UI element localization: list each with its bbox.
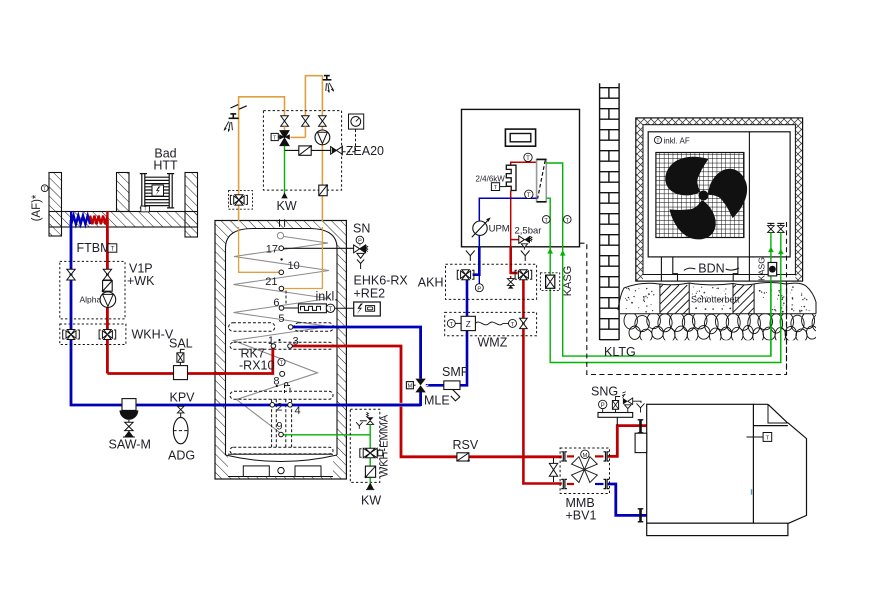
- wire blue return main through tank: [213, 404, 421, 407]
- svg-text:ADG: ADG: [168, 448, 195, 462]
- svg-text:Schotterbett: Schotterbett: [691, 295, 740, 305]
- heat pump indoor unit cabinet: [462, 109, 580, 246]
- svg-text:HTT: HTT: [153, 159, 178, 173]
- drain funnel under unit left: [466, 251, 475, 256]
- node port 3: [288, 344, 293, 349]
- valve WKH-V red: [99, 330, 116, 340]
- svg-text:WKH-EMMA: WKH-EMMA: [379, 414, 391, 477]
- wire red horizontal to tank port 1: [107, 346, 272, 374]
- svg-text:T: T: [511, 322, 515, 328]
- motor valve MLE: [406, 379, 449, 408]
- valve WMZ red: [520, 318, 528, 323]
- wire green from tank port 9 to WKH-EMMA: [283, 434, 370, 436]
- node port 2: [270, 403, 275, 408]
- safety valve 2,5bar: [511, 226, 542, 250]
- node (AF)* sensor: [31, 185, 48, 222]
- SAW-M component: [109, 399, 151, 452]
- svg-text:T: T: [526, 155, 530, 162]
- sensor T green B: [564, 216, 572, 224]
- node port 8: [280, 371, 285, 376]
- svg-text:FTBM: FTBM: [77, 241, 111, 255]
- heating element EHK6-RX box: [354, 274, 409, 316]
- wall right column: [185, 173, 198, 238]
- wire orange in-tank branch B to port 21: [284, 227, 322, 289]
- pressure gauge: [343, 114, 364, 152]
- wall middle column: [117, 173, 130, 212]
- svg-text:2,5bar: 2,5bar: [515, 226, 542, 237]
- meter box Z: [461, 316, 475, 330]
- wire green KW up into mixer: [284, 146, 286, 194]
- MMB unions: [561, 452, 609, 489]
- boiler sensor box-T: [747, 436, 764, 438]
- heater 2/4/6kW comb: [506, 165, 516, 190]
- wire floor-coil red zigzag: [90, 211, 107, 224]
- cabinet divider: [748, 132, 750, 257]
- svg-text:P: P: [477, 286, 481, 292]
- red stubs inside MMB: [567, 455, 574, 457]
- svg-text:KLTG: KLTG: [604, 345, 636, 359]
- wire blue AKH valve down to WMZ: [466, 280, 469, 316]
- svg-text:SAL: SAL: [169, 336, 193, 350]
- tank top stub: [279, 219, 281, 227]
- SAL air separator: [169, 336, 193, 379]
- svg-text:T: T: [43, 187, 46, 193]
- svg-text:-RX10: -RX10: [239, 359, 274, 373]
- svg-text:T: T: [329, 307, 333, 313]
- wire red from tank port 3 to RSV corner: [291, 346, 401, 403]
- tank storage (hatched insulation): [215, 221, 346, 480]
- tap (draw-off) left: [229, 114, 239, 118]
- valve ZEA box top 1: [281, 116, 289, 121]
- node port 1: [271, 344, 276, 349]
- svg-text:+WK: +WK: [127, 274, 155, 288]
- wire red flow from wall down to SAL level: [106, 220, 109, 374]
- KPV valve + ADG expansion vessel: [168, 391, 195, 463]
- svg-text:BDN: BDN: [698, 262, 724, 276]
- svg-text:2: 2: [277, 402, 283, 414]
- bypass valve BV1: [549, 458, 557, 482]
- KW supply arrow (ZEA): [281, 192, 287, 198]
- wire red RSV run continuing below blue crossing: [401, 407, 562, 457]
- svg-text:4: 4: [295, 405, 301, 417]
- wire orange riser 2' + top run to tap: [305, 76, 322, 116]
- pump Alpha: [100, 292, 116, 308]
- mixer 4-way MMB: [572, 457, 598, 483]
- pump ZEA circulation: [315, 130, 330, 145]
- valve AKH red: [515, 270, 532, 280]
- small box on boiler left: [635, 433, 647, 452]
- svg-text:ZEA20: ZEA20: [346, 144, 384, 158]
- wire blue HX to UPM: [479, 198, 536, 247]
- wire green line A riser redrawn: [780, 232, 782, 362]
- KASG filter (left): [540, 266, 574, 297]
- wire red heater down to safety tee: [510, 191, 512, 247]
- svg-text:RSV: RSV: [453, 438, 479, 452]
- check valve (gravity brake) above pump: [102, 281, 113, 293]
- wire orange riser B (tap down through box to tank): [321, 80, 323, 221]
- display: [505, 129, 535, 146]
- svg-text:3: 3: [293, 336, 299, 348]
- node port 6: [279, 306, 284, 311]
- tank baffle middle: [230, 391, 333, 399]
- unit pedestal / feet: [661, 257, 749, 281]
- node port 17: [279, 246, 284, 251]
- wire blue MMB to boiler return: [608, 484, 647, 515]
- wire green HX to line A: [546, 198, 781, 362]
- svg-text:KASG: KASG: [562, 266, 574, 297]
- svg-text:KPV: KPV: [170, 391, 196, 405]
- radiator HTT: [140, 173, 174, 209]
- thermostatic mixer (black): [271, 126, 305, 145]
- svg-text:M: M: [582, 453, 587, 459]
- svg-text:P: P: [358, 239, 362, 245]
- svg-text:5: 5: [278, 313, 284, 325]
- sensor T WMZ right: [509, 319, 517, 327]
- tank internal coil: [234, 236, 330, 434]
- fan blades: [350, 157, 827, 536]
- KASG valves in unit: [767, 223, 784, 232]
- sensor RK7 circle-T: [278, 358, 285, 365]
- outdoor unit frame (cross-hatched): [636, 118, 803, 281]
- svg-text:SNG: SNG: [591, 384, 618, 398]
- fan grille: [656, 153, 744, 238]
- solenoid valve ZEA20: [331, 144, 384, 158]
- svg-text:EHK6-RX: EHK6-RX: [354, 274, 409, 288]
- safety group SNG: [591, 384, 645, 425]
- filter SMF: [442, 365, 469, 401]
- wire floor-coil blue zigzag: [71, 211, 90, 224]
- WKH-V dashed box: [60, 324, 126, 345]
- valve ZEA box top 3: [319, 116, 327, 121]
- wall floor slab: [49, 212, 198, 228]
- svg-text:SAW-M: SAW-M: [109, 438, 151, 452]
- node port 4: [288, 403, 293, 408]
- KW supply arrow (WKH-EMMA): [367, 482, 374, 489]
- WKH-EMMA dashed box: [350, 409, 380, 482]
- svg-text:AKH: AKH: [418, 275, 444, 289]
- node port 5: [288, 325, 293, 330]
- circulation shut-off valve on riser A: [229, 191, 253, 210]
- blue tick on boiler divider: [751, 489, 753, 495]
- pump UPM: [472, 217, 510, 237]
- svg-text:KW: KW: [361, 494, 381, 508]
- KLTG boundary dashed: [580, 222, 787, 375]
- sensor T on red flow: [524, 153, 532, 161]
- radiator heating element box: [152, 185, 164, 196]
- svg-text:KASG: KASG: [757, 257, 767, 281]
- boiler body: [647, 404, 807, 535]
- svg-text:21: 21: [265, 276, 277, 288]
- wire red unit to AKH valve: [511, 247, 518, 273]
- wire green down WKH-EMMA: [369, 435, 371, 483]
- svg-text:+BV1: +BV1: [566, 509, 597, 523]
- ZEA20 dashed box: [263, 111, 341, 191]
- water meter WKH-EMMA: [365, 466, 375, 477]
- tank baffle bottom: [230, 447, 333, 454]
- wire orange in-tank branch A to port: [239, 227, 279, 272]
- drain funnel under unit right: [521, 251, 530, 256]
- gravel blocks: [620, 284, 816, 314]
- svg-text:UPM: UPM: [489, 224, 510, 235]
- gravel stones: [624, 312, 828, 344]
- svg-text:17: 17: [266, 243, 278, 255]
- tank baffle at port 5 (left): [229, 323, 275, 332]
- svg-text:Z: Z: [466, 320, 471, 329]
- wire green HX to line B: [546, 163, 771, 356]
- sensor box-T FTBM: [108, 244, 117, 252]
- valve ZEA box top 2: [302, 116, 310, 121]
- wire blue from tank port 5 to MLE: [292, 327, 421, 379]
- wire blue unit to AKH valve: [473, 247, 480, 275]
- svg-text:inkl. AF: inkl. AF: [664, 136, 690, 145]
- svg-text:M: M: [408, 383, 413, 389]
- node port 10: [280, 258, 282, 260]
- WMZ dashed box: [445, 312, 537, 335]
- svg-text:+RE2: +RE2: [354, 287, 386, 301]
- heating element RK7 inkl (comb + sensor): [284, 289, 354, 313]
- heat exchanger (condenser): [537, 159, 547, 201]
- gauge P under AKH blue: [478, 276, 480, 284]
- valve on red (V1P): [103, 269, 111, 280]
- wire red MMB to boiler flow: [608, 426, 647, 457]
- wire red electric heater to HX: [511, 162, 537, 165]
- gravel bed top (wavy): [618, 283, 816, 314]
- KASG coupling redrawn: [768, 263, 776, 276]
- wavy capillary: [475, 322, 508, 325]
- sensor T WMZ left: [447, 319, 455, 327]
- pipe-break on riser A: [231, 105, 239, 108]
- AKH dashed box: [446, 264, 537, 299]
- motor mixing valve WKH-EMMA: [360, 448, 383, 458]
- svg-text:2/4/6kW: 2/4/6kW: [476, 174, 506, 183]
- tap (draw-off) right: [322, 76, 331, 80]
- node port 9: [279, 432, 284, 437]
- svg-text:T: T: [450, 322, 454, 328]
- brick wall (house): [600, 83, 620, 340]
- safety valve WKH-EMMA: [356, 412, 374, 434]
- wire blue WMZ down to SMF/MLE: [426, 331, 467, 386]
- green flow arrows at unit: [768, 247, 774, 253]
- wall left column: [49, 173, 198, 238]
- svg-text:Alpha: Alpha: [80, 295, 102, 305]
- svg-text:(AF)*: (AF)*: [31, 194, 43, 221]
- label inkl. AF: [654, 136, 661, 143]
- wire black cold branch with check valve to riser B: [285, 149, 331, 151]
- tank baffle at port 5 (right): [294, 323, 333, 332]
- svg-text:T: T: [766, 436, 770, 442]
- flange blue: [639, 509, 642, 522]
- svg-text:MLE: MLE: [424, 394, 450, 408]
- svg-text:inkl.: inkl.: [316, 289, 338, 303]
- wire red AKH down through WMZ to MMB: [523, 280, 561, 484]
- tank baffle at ports 1/3: [230, 342, 333, 349]
- valve on blue (V1P): [67, 269, 75, 280]
- safety group SN: [353, 221, 370, 269]
- svg-text:6: 6: [273, 297, 279, 309]
- svg-text:P: P: [601, 402, 605, 409]
- radiator thermostat box-T: [141, 206, 150, 212]
- node port 21: [279, 286, 284, 291]
- tank internal dashed pipes: [272, 291, 292, 449]
- svg-text:T: T: [273, 135, 276, 141]
- wire red to port 1 through tank: [213, 346, 273, 374]
- svg-text:T: T: [144, 207, 147, 213]
- svg-text:1: 1: [268, 335, 274, 347]
- wire black port 17 to SN valve: [283, 247, 354, 249]
- svg-text:SN: SN: [353, 221, 370, 235]
- svg-text:KW: KW: [277, 199, 297, 213]
- sensor T on blue return: [525, 190, 533, 198]
- flange red: [639, 420, 642, 433]
- svg-text:SMF: SMF: [442, 365, 469, 379]
- svg-text:10: 10: [288, 260, 300, 272]
- water meter in ZEA box: [319, 185, 327, 196]
- outdoor unit cabinet: [648, 132, 790, 257]
- MMB dashed box: [560, 448, 609, 494]
- valve WKH-V blue: [63, 330, 80, 340]
- wire blue return main (wall down, across bottom, through tank to MLE): [71, 220, 421, 405]
- wire orange riser A (tank to break/corner): [239, 97, 285, 221]
- check valve in ZEA box: [299, 146, 311, 155]
- drain valve on red AKH: [507, 276, 514, 289]
- svg-text:WKH-V: WKH-V: [132, 328, 174, 342]
- KLTG boundary right side redrawn: [786, 222, 788, 375]
- green flow arrows: [547, 248, 553, 254]
- svg-text:9: 9: [276, 421, 282, 433]
- svg-text:WMZ: WMZ: [478, 335, 508, 349]
- wire green line B risers redrawn over unit/gravel: [770, 232, 772, 356]
- sensor T green A: [542, 216, 550, 224]
- valve AKH blue: [457, 270, 474, 280]
- V1P+WK dashed box: [60, 261, 125, 319]
- svg-text:T: T: [111, 247, 115, 253]
- svg-text:T: T: [527, 192, 531, 199]
